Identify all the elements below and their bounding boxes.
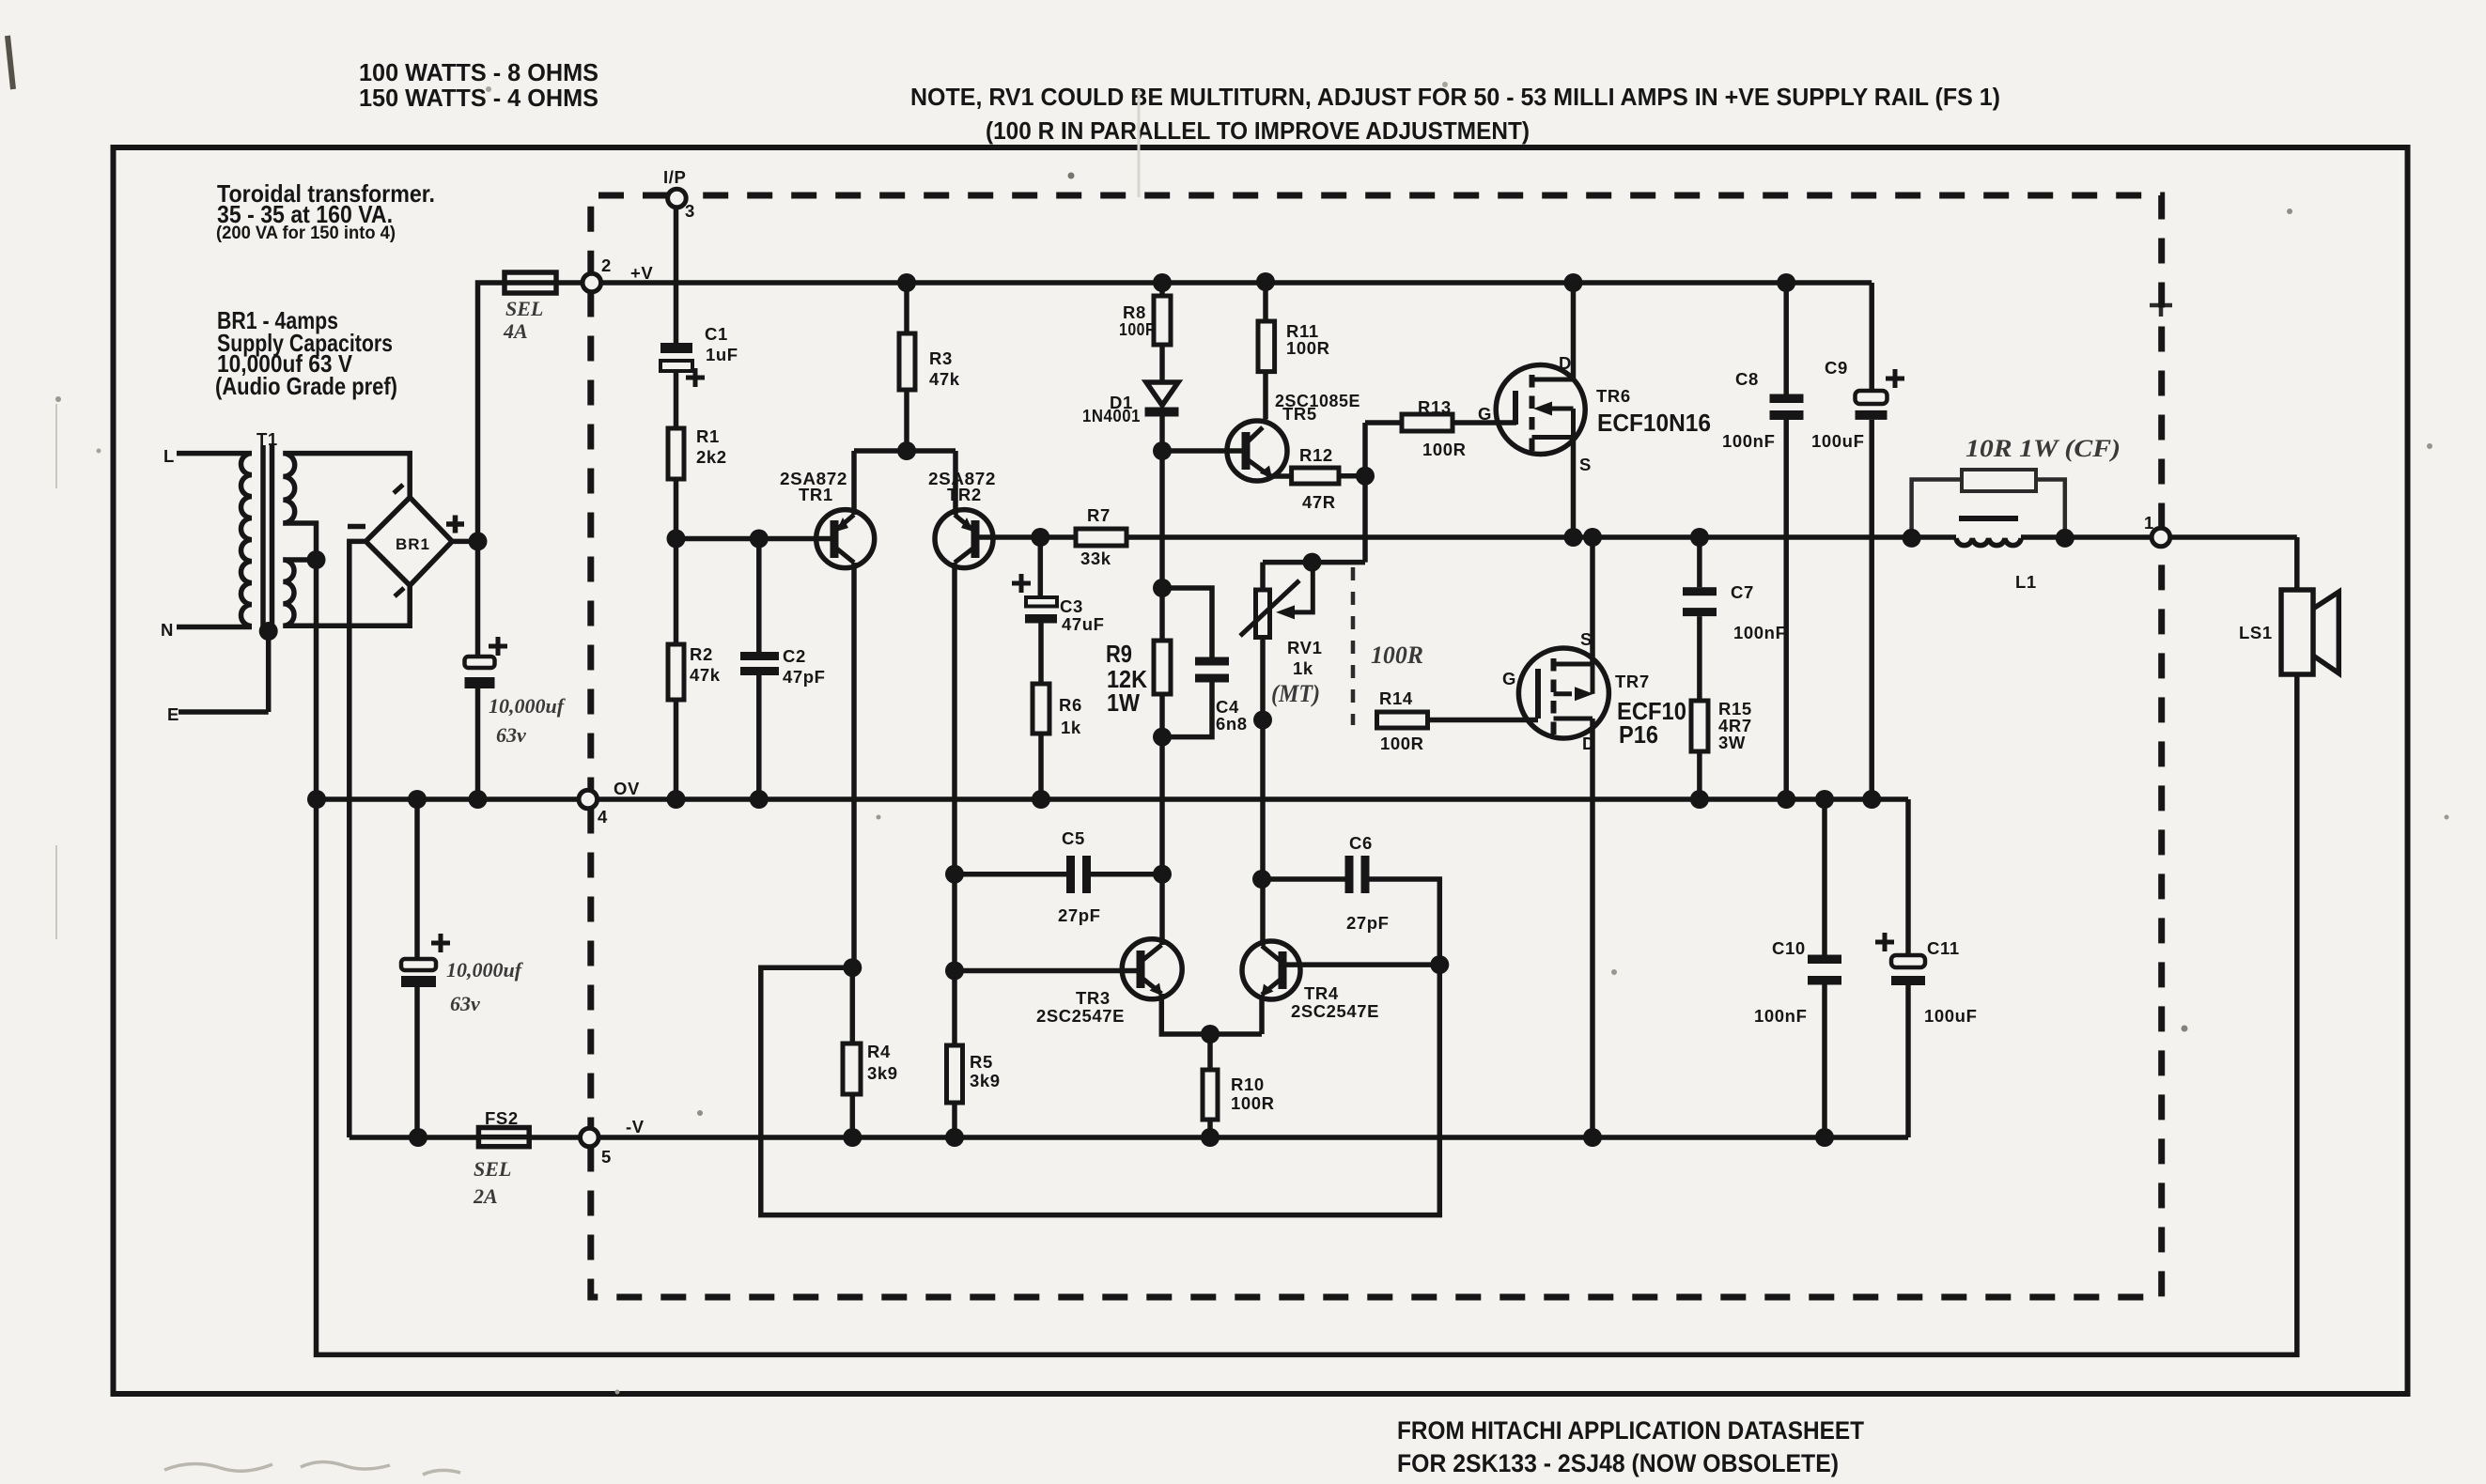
- svg-text:6n8: 6n8: [1216, 714, 1248, 734]
- svg-text:100uF: 100uF: [1924, 1006, 1977, 1026]
- svg-text:SEL: SEL: [474, 1157, 511, 1181]
- svg-text:C7: C7: [1731, 582, 1754, 602]
- svg-text:100R: 100R: [1231, 1093, 1275, 1113]
- svg-text:TR6: TR6: [1596, 386, 1631, 406]
- svg-text:4: 4: [598, 807, 608, 827]
- svg-text:2A: 2A: [473, 1184, 498, 1208]
- svg-text:100R: 100R: [1422, 440, 1467, 459]
- svg-text:10,000uf: 10,000uf: [489, 694, 567, 718]
- svg-text:FROM HITACHI APPLICATION DATAS: FROM HITACHI APPLICATION DATASHEET: [1397, 1416, 1864, 1445]
- svg-text:S: S: [1579, 455, 1592, 474]
- svg-text:SEL: SEL: [505, 297, 543, 320]
- svg-text:BR1: BR1: [396, 535, 430, 553]
- svg-text:1W: 1W: [1107, 688, 1140, 717]
- svg-text:1N4001: 1N4001: [1082, 406, 1141, 425]
- svg-text:-V: -V: [626, 1117, 645, 1136]
- svg-text:33k: 33k: [1080, 549, 1111, 568]
- svg-text:L: L: [163, 446, 175, 466]
- svg-text:100uF: 100uF: [1811, 431, 1864, 451]
- svg-text:G: G: [1502, 669, 1516, 688]
- svg-text:R5: R5: [970, 1052, 993, 1072]
- svg-text:47k: 47k: [690, 665, 721, 685]
- svg-text:100R: 100R: [1119, 319, 1157, 339]
- svg-text:100 WATTS - 8 OHMS: 100 WATTS - 8 OHMS: [359, 58, 598, 86]
- svg-text:47R: 47R: [1302, 492, 1336, 512]
- svg-text:+V: +V: [630, 263, 653, 283]
- svg-text:47pF: 47pF: [783, 667, 826, 687]
- svg-text:100nF: 100nF: [1733, 623, 1786, 642]
- svg-text:63v: 63v: [496, 723, 526, 747]
- svg-text:OV: OV: [614, 779, 640, 798]
- svg-text:2: 2: [601, 255, 612, 275]
- svg-text:(MT): (MT): [1271, 680, 1320, 707]
- svg-text:3k9: 3k9: [970, 1071, 1001, 1090]
- svg-text:NOTE, RV1 COULD BE MULTITURN,: NOTE, RV1 COULD BE MULTITURN, ADJUST FOR…: [910, 83, 2000, 111]
- svg-text:E: E: [167, 704, 179, 724]
- svg-text:63v: 63v: [450, 992, 480, 1015]
- svg-text:C8: C8: [1735, 369, 1759, 389]
- svg-text:2SC2547E: 2SC2547E: [1036, 1006, 1125, 1026]
- svg-text:D: D: [1582, 734, 1595, 753]
- svg-text:TR1: TR1: [799, 485, 833, 504]
- svg-text:TR3: TR3: [1076, 988, 1111, 1008]
- svg-text:C11: C11: [1927, 938, 1960, 958]
- svg-text:R6: R6: [1059, 695, 1082, 715]
- svg-text:100R: 100R: [1286, 338, 1330, 358]
- svg-text:TR7: TR7: [1615, 672, 1650, 691]
- svg-text:C3: C3: [1060, 596, 1083, 616]
- svg-text:I/P: I/P: [663, 167, 686, 187]
- svg-text:D: D: [1559, 353, 1572, 373]
- svg-text:27pF: 27pF: [1346, 913, 1390, 933]
- svg-text:TR2: TR2: [947, 485, 982, 504]
- svg-text:L1: L1: [2015, 572, 2037, 592]
- svg-text:100nF: 100nF: [1722, 431, 1775, 451]
- svg-text:R7: R7: [1087, 505, 1111, 525]
- svg-text:R1: R1: [696, 426, 720, 446]
- svg-text:4A: 4A: [503, 319, 528, 343]
- svg-text:R3: R3: [929, 348, 953, 368]
- svg-text:5: 5: [601, 1147, 612, 1167]
- svg-text:1k: 1k: [1293, 658, 1313, 678]
- svg-text:R13: R13: [1418, 397, 1452, 417]
- svg-text:N: N: [161, 620, 174, 640]
- svg-text:(Audio Grade pref): (Audio Grade pref): [215, 372, 397, 400]
- svg-text:LS1: LS1: [2239, 623, 2273, 642]
- svg-text:TR5: TR5: [1282, 404, 1317, 424]
- svg-text:10,000uf: 10,000uf: [446, 958, 524, 982]
- svg-text:C5: C5: [1062, 828, 1085, 848]
- svg-text:C1: C1: [705, 324, 728, 344]
- svg-text:1uF: 1uF: [706, 345, 738, 364]
- svg-text:R9: R9: [1106, 640, 1132, 668]
- svg-text:C6: C6: [1349, 833, 1373, 853]
- svg-text:(200 VA for 150 into 4): (200 VA for 150 into 4): [216, 224, 396, 243]
- svg-text:C9: C9: [1825, 358, 1848, 378]
- svg-text:100nF: 100nF: [1754, 1006, 1807, 1026]
- svg-text:TR4: TR4: [1304, 983, 1339, 1003]
- svg-text:RV1: RV1: [1287, 638, 1322, 657]
- svg-text:T1: T1: [256, 429, 278, 449]
- svg-text:FS2: FS2: [485, 1108, 519, 1128]
- svg-text:P16: P16: [1619, 720, 1658, 749]
- svg-text:R12: R12: [1299, 445, 1333, 465]
- svg-text:C10: C10: [1772, 938, 1806, 958]
- svg-text:3k9: 3k9: [867, 1063, 898, 1083]
- svg-text:2k2: 2k2: [696, 447, 727, 467]
- svg-text:R4: R4: [867, 1042, 891, 1061]
- svg-text:1k: 1k: [1061, 718, 1081, 737]
- svg-text:C2: C2: [783, 646, 806, 666]
- svg-text:2SC2547E: 2SC2547E: [1291, 1001, 1379, 1021]
- svg-text:100R: 100R: [1380, 734, 1424, 753]
- svg-text:S: S: [1580, 629, 1593, 649]
- svg-text:R2: R2: [690, 644, 713, 664]
- svg-text:FOR 2SK133 - 2SJ48 (NOW OBSOLE: FOR 2SK133 - 2SJ48 (NOW OBSOLETE): [1397, 1449, 1839, 1477]
- svg-text:100R: 100R: [1371, 642, 1423, 669]
- svg-text:R10: R10: [1231, 1074, 1265, 1094]
- svg-text:150 WATTS - 4 OHMS: 150 WATTS - 4 OHMS: [359, 84, 598, 112]
- svg-text:47uF: 47uF: [1062, 614, 1105, 634]
- svg-text:47k: 47k: [929, 369, 960, 389]
- svg-text:G: G: [1478, 404, 1492, 424]
- svg-text:3: 3: [685, 201, 695, 221]
- svg-text:R14: R14: [1379, 688, 1413, 708]
- svg-text:ECF10N16: ECF10N16: [1597, 409, 1711, 437]
- svg-text:10R 1W (CF): 10R 1W (CF): [1965, 435, 2121, 462]
- svg-text:1: 1: [2144, 513, 2154, 533]
- svg-text:(100 R IN PARALLEL TO IMPROVE: (100 R IN PARALLEL TO IMPROVE ADJUSTMENT…: [986, 116, 1530, 145]
- svg-text:27pF: 27pF: [1058, 905, 1101, 925]
- svg-text:3W: 3W: [1718, 733, 1746, 752]
